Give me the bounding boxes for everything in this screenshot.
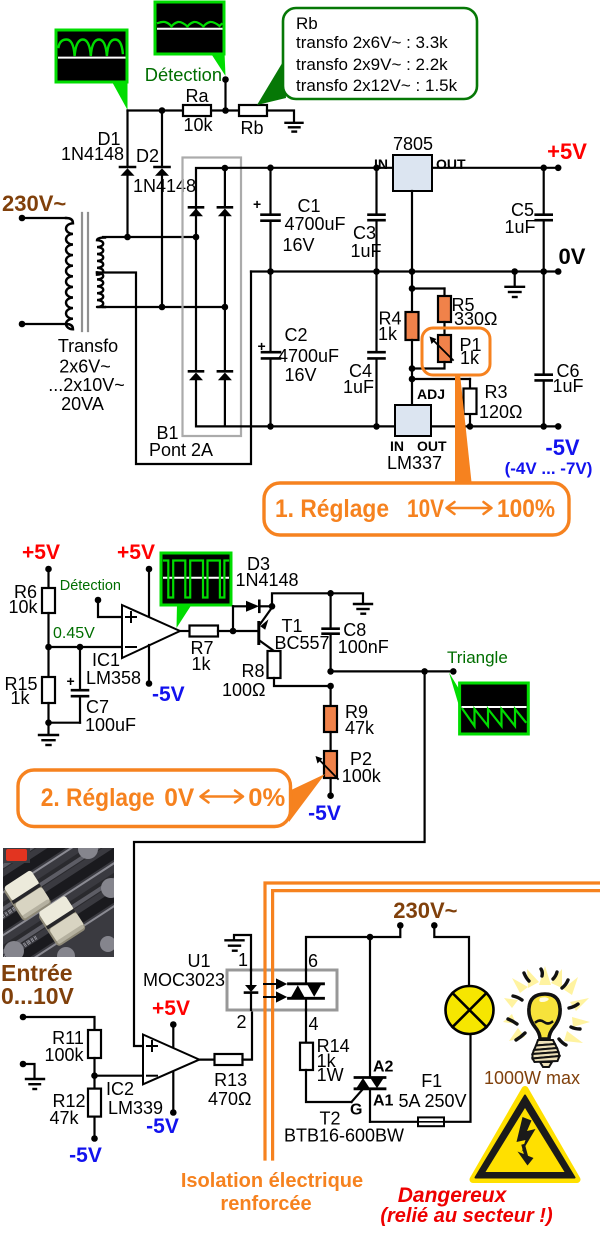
capacitor C5 — [504, 168, 551, 272]
svg-text:230V~: 230V~ — [2, 191, 66, 216]
svg-text:Ω: Ω — [509, 402, 522, 422]
svg-text:Détection: Détection — [145, 64, 222, 85]
svg-text:1: 1 — [238, 950, 248, 970]
svg-text:47k: 47k — [49, 1108, 79, 1128]
terminal +5V (R6) — [45, 566, 52, 573]
terminal 230V bottom — [19, 321, 26, 328]
svg-text:1W: 1W — [317, 1065, 344, 1085]
wire bridge top rail — [196, 168, 225, 237]
wire input to R11 — [23, 1017, 95, 1030]
svg-text:C7: C7 — [86, 697, 109, 717]
fader cap 1 — [2, 870, 52, 922]
svg-text:100uF: 100uF — [85, 715, 136, 735]
svg-text:Triangle: Triangle — [447, 648, 508, 667]
ground (C8) — [354, 604, 372, 614]
red button — [3, 848, 30, 863]
wire R4 column — [411, 272, 413, 313]
svg-text:10V: 10V — [407, 495, 444, 523]
svg-text:4: 4 — [309, 1014, 319, 1034]
wire emitter node to ground and C8 — [272, 593, 363, 606]
wire IC2 V+ — [172, 1025, 174, 1050]
svg-text:100k: 100k — [44, 1045, 84, 1065]
svg-text:330: 330 — [454, 309, 484, 329]
wire R11/R12 node to IC2 - input — [93, 1058, 95, 1089]
isolation boundary (orange) — [265, 883, 600, 1159]
resistor R9 — [324, 686, 375, 738]
svg-text:1. Réglage: 1. Réglage — [275, 495, 389, 523]
terminal Détection — [95, 597, 102, 604]
svg-text:1N4148: 1N4148 — [133, 176, 196, 196]
svg-text:G: G — [350, 1102, 362, 1119]
svg-text:1uF: 1uF — [552, 376, 583, 396]
svg-text:D2: D2 — [136, 146, 159, 166]
svg-text:Ω: Ω — [238, 1089, 251, 1109]
svg-text:-5V: -5V — [152, 683, 185, 706]
svg-text:1N4148: 1N4148 — [235, 570, 298, 590]
bridge diode bottom-left — [189, 237, 225, 426]
wire -V bottom rail — [225, 425, 558, 427]
terminal +5V (IC1) — [146, 566, 153, 573]
svg-text:1uF: 1uF — [350, 241, 381, 261]
transistor T1 BC557 — [233, 608, 330, 654]
svg-text:100k: 100k — [342, 766, 382, 786]
svg-text:10k: 10k — [183, 115, 213, 135]
svg-text:1uF: 1uF — [504, 217, 535, 237]
svg-text:1k: 1k — [460, 348, 480, 368]
wire Rb to ground — [267, 111, 294, 123]
wire +V top rail — [225, 167, 393, 169]
svg-text:+: + — [253, 196, 261, 212]
svg-text:-5V: -5V — [308, 802, 341, 825]
regulator U LM337 — [387, 386, 447, 473]
svg-text:-5V: -5V — [146, 1115, 179, 1138]
svg-text:Rb: Rb — [240, 118, 263, 138]
svg-text:0V: 0V — [559, 244, 586, 269]
svg-text:IN: IN — [390, 438, 404, 454]
resistor R15 — [47, 647, 49, 677]
P1 highlight box — [422, 328, 490, 375]
SECTION 1b : rails and regulators — [225, 134, 593, 535]
svg-text:120: 120 — [479, 402, 509, 422]
callout pointer wedge 2 — [289, 774, 325, 822]
svg-text:C2: C2 — [284, 325, 307, 345]
svg-text:A1: A1 — [373, 1093, 394, 1110]
svg-text:1000W max: 1000W max — [484, 1068, 580, 1088]
transformer core — [81, 213, 83, 331]
op-amp IC1 — [122, 605, 180, 658]
wire IC1 V- — [148, 645, 150, 684]
svg-text:1k: 1k — [10, 688, 30, 708]
svg-text:2. Réglage: 2. Réglage — [41, 784, 155, 812]
svg-text:230V~: 230V~ — [393, 898, 457, 923]
svg-text:4700uF: 4700uF — [284, 214, 345, 234]
svg-text:1k: 1k — [378, 324, 398, 344]
lamp (circle-X) — [446, 986, 494, 1034]
diode D2 — [133, 111, 196, 308]
wire detection rail — [128, 109, 184, 111]
ground (Rb) — [286, 123, 303, 132]
svg-text:5A 250V: 5A 250V — [398, 1091, 466, 1111]
svg-text:0V: 0V — [164, 784, 194, 812]
scope 3 (square wave) — [161, 553, 231, 628]
svg-text:100%: 100% — [497, 495, 555, 523]
transformer secondary winding 1 — [97, 238, 105, 275]
wire R13 to MOC pin 2 — [243, 1012, 253, 1060]
svg-text:(-4V ... -7V): (-4V ... -7V) — [505, 459, 593, 478]
terminal 230V top — [19, 215, 26, 222]
svg-text:47k: 47k — [345, 718, 375, 738]
callout pointer wedge 1 — [455, 374, 472, 482]
resistor R11 — [88, 1030, 101, 1058]
svg-text:R13: R13 — [214, 1070, 247, 1090]
bridge B1 outline box — [183, 158, 242, 437]
SECTION 3 : output stage — [0, 791, 600, 1227]
wire IC1 output — [180, 630, 190, 632]
svg-text:BC557: BC557 — [274, 633, 329, 653]
resistor Ra — [183, 105, 211, 116]
svg-text:+5V: +5V — [152, 997, 190, 1020]
svg-text:20VA: 20VA — [61, 394, 104, 414]
wire R5 branch — [412, 287, 445, 289]
wire 7805 GND — [411, 191, 413, 272]
scope 1 (rectified sine) — [56, 30, 128, 110]
capacitor C6 — [536, 272, 584, 427]
diode D3 — [233, 554, 299, 612]
svg-text:transfo 2x9V~ : 2.2k: transfo 2x9V~ : 2.2k — [296, 55, 448, 74]
svg-text:-5V: -5V — [545, 435, 580, 460]
callout bubble Rb values — [257, 8, 477, 105]
svg-text:LM337: LM337 — [387, 453, 442, 473]
photo faders (mixer) — [0, 791, 164, 987]
terminal -5V (P2) — [330, 778, 332, 796]
svg-text:C1: C1 — [297, 196, 320, 216]
svg-text:100nF: 100nF — [338, 637, 389, 657]
svg-text:Isolation électrique: Isolation électrique — [181, 1170, 363, 1192]
op-amp IC2 — [143, 1035, 199, 1085]
svg-text:100: 100 — [222, 680, 252, 700]
terminal mains right — [431, 922, 438, 929]
warning sign — [473, 1090, 577, 1180]
svg-text:ADJ: ADJ — [417, 386, 445, 402]
terminal +5V (IC2) — [170, 1021, 177, 1028]
svg-text:IC1: IC1 — [92, 650, 120, 670]
node Détection junction dot — [222, 76, 229, 83]
svg-text:(relié au secteur !): (relié au secteur !) — [380, 1205, 553, 1227]
wire A1 to fuse — [370, 1121, 418, 1123]
callout 2. Réglage — [18, 770, 291, 827]
wire mains right to lamp — [434, 925, 469, 987]
capacitor C4 — [343, 272, 385, 427]
wire Détection down to Ra-Rb net — [224, 80, 226, 111]
wire base node up to D3 — [232, 606, 234, 631]
svg-text:4700uF: 4700uF — [278, 346, 339, 366]
resistor R12 — [88, 1089, 101, 1117]
svg-text:Détection: Détection — [60, 578, 121, 594]
svg-text:+5V: +5V — [547, 139, 587, 164]
SECTION 1 : power supply — [2, 2, 477, 464]
wire R7 to T1 base node — [218, 630, 233, 632]
wire 0V rail — [251, 270, 558, 272]
wire Détection to IC1 + input — [98, 600, 122, 617]
ground (divider) — [39, 723, 58, 745]
wire secondary bottom to bridge — [103, 306, 225, 308]
wire pin4 to R14 — [305, 1010, 307, 1043]
svg-text:LM358: LM358 — [86, 668, 141, 688]
wire IC2 output — [199, 1058, 214, 1060]
wire IC2 V- — [172, 1072, 174, 1113]
svg-text:2: 2 — [237, 1012, 247, 1032]
resistor R3 — [469, 379, 471, 426]
wire primary top — [22, 217, 66, 219]
svg-text:BTB16-600BW: BTB16-600BW — [284, 1126, 404, 1146]
svg-text:7805: 7805 — [393, 134, 433, 154]
svg-text:OUT: OUT — [436, 156, 466, 172]
wire secondary top to bridge — [103, 236, 196, 238]
wire center tap detour to 0V — [97, 272, 251, 465]
svg-text:0.45V: 0.45V — [53, 625, 95, 642]
svg-text:OUT: OUT — [417, 438, 447, 454]
potentiometer P1 — [438, 335, 451, 362]
svg-text:Transfo: Transfo — [58, 336, 118, 356]
svg-text:6: 6 — [308, 951, 318, 971]
ground (MOC pin1) — [226, 940, 244, 950]
svg-text:IC2: IC2 — [106, 1079, 134, 1099]
capacitor C7 — [67, 647, 137, 735]
coupling arrows — [264, 980, 285, 1001]
capacitor C8 — [323, 593, 389, 671]
svg-text:+5V: +5V — [22, 541, 60, 564]
svg-text:10k: 10k — [8, 597, 38, 617]
resistor Rb — [239, 105, 267, 116]
terminal -5V (R12) — [93, 1117, 95, 1139]
ground (input) — [23, 1064, 44, 1089]
svg-text:Ω: Ω — [484, 309, 497, 329]
scope 4 (sawtooth) — [449, 673, 528, 735]
potentiometer P2 — [316, 732, 382, 786]
resistor R4 — [406, 312, 419, 340]
svg-text:...2x10V~: ...2x10V~ — [48, 375, 125, 395]
fuse F1 — [398, 1071, 466, 1126]
svg-text:0...10V: 0...10V — [1, 983, 75, 1009]
optocoupler U1 box — [227, 970, 337, 1010]
svg-text:A2: A2 — [373, 1059, 394, 1076]
capacitor C2 — [258, 272, 340, 427]
wire MOC pin 1 to ground — [234, 935, 251, 970]
wire R14 to gate — [306, 1070, 352, 1102]
svg-text:2x6V~: 2x6V~ — [59, 357, 111, 377]
transformer secondary winding 2 — [97, 273, 105, 308]
node D3 cathode / T1 emitter — [269, 603, 276, 610]
resistor R7 — [190, 626, 219, 637]
svg-text:U1: U1 — [187, 951, 210, 971]
svg-text:Dangereux: Dangereux — [398, 1184, 508, 1207]
wire Triangle net — [331, 670, 454, 672]
svg-text:Ra: Ra — [185, 86, 209, 106]
svg-text:Pont 2A: Pont 2A — [149, 440, 213, 460]
terminal input — [20, 1014, 27, 1021]
bulb clipart — [503, 966, 590, 1067]
wire MOC pin 6 to mains — [306, 937, 370, 970]
photo-triac (inside U1) — [289, 970, 324, 1010]
terminal mains left — [397, 922, 404, 929]
svg-text:C3: C3 — [353, 223, 376, 243]
wire divider node to IC1 - input — [49, 646, 123, 648]
wire R6 to divider node — [47, 613, 49, 647]
diode D1 — [61, 111, 135, 238]
svg-text:transfo 2x6V~ : 3.3k: transfo 2x6V~ : 3.3k — [296, 33, 448, 52]
ground (0V rail) — [506, 272, 525, 298]
capacitor C1 — [253, 168, 346, 272]
svg-text:0%: 0% — [248, 784, 285, 812]
svg-text:16V: 16V — [284, 365, 316, 385]
svg-text:Rb: Rb — [296, 14, 318, 33]
svg-text:transfo 2x12V~ : 1.5k: transfo 2x12V~ : 1.5k — [296, 76, 458, 95]
svg-text:R8: R8 — [241, 661, 264, 681]
wire R15/C7 to ground — [49, 722, 81, 724]
regulator U 7805 — [374, 134, 466, 272]
wire IC1 V+ — [148, 569, 150, 618]
svg-text:+: + — [258, 338, 266, 354]
svg-text:1uF: 1uF — [343, 377, 374, 397]
bridge diode top-left — [189, 207, 203, 216]
svg-text:Ω: Ω — [252, 680, 265, 700]
LED (inside U1) — [245, 970, 257, 1010]
wire mains left — [370, 925, 400, 937]
wire Triangle to IC2 input — [134, 671, 425, 1046]
resistor R5 — [438, 296, 451, 322]
callout 1. Réglage — [264, 483, 569, 535]
bridge diode bottom-right — [218, 307, 232, 426]
resistor R6 — [42, 588, 55, 613]
resistor R8 — [222, 651, 334, 700]
resistor R14 — [300, 1043, 313, 1070]
svg-text:F1: F1 — [421, 1071, 442, 1091]
scope 2 (smoothed ripple) — [155, 2, 226, 76]
svg-text:MOC3023: MOC3023 — [143, 970, 225, 990]
wire fuse to lamp — [444, 1033, 471, 1122]
bridge diode top-right — [218, 168, 232, 307]
svg-text:renforcée: renforcée — [220, 1193, 311, 1215]
svg-text:1k: 1k — [191, 654, 211, 674]
svg-text:1N4148: 1N4148 — [61, 144, 124, 164]
SECTION 2 : oscillator — [4, 541, 528, 1046]
svg-text:470: 470 — [208, 1089, 238, 1109]
svg-text:-5V: -5V — [69, 1144, 102, 1167]
svg-text:+5V: +5V — [117, 541, 155, 564]
capacitor C3 — [350, 168, 384, 272]
svg-text:16V: 16V — [282, 235, 314, 255]
wire +5V to R6 — [47, 569, 49, 588]
transformer primary winding — [66, 218, 73, 329]
svg-text:+: + — [67, 673, 75, 689]
fader cap 2 — [36, 895, 86, 947]
terminal ground (input) — [20, 1061, 27, 1068]
triac T2 — [284, 937, 404, 1146]
wire primary bottom — [22, 323, 66, 325]
svg-text:R3: R3 — [484, 382, 507, 402]
resistor R13 — [215, 1054, 243, 1065]
